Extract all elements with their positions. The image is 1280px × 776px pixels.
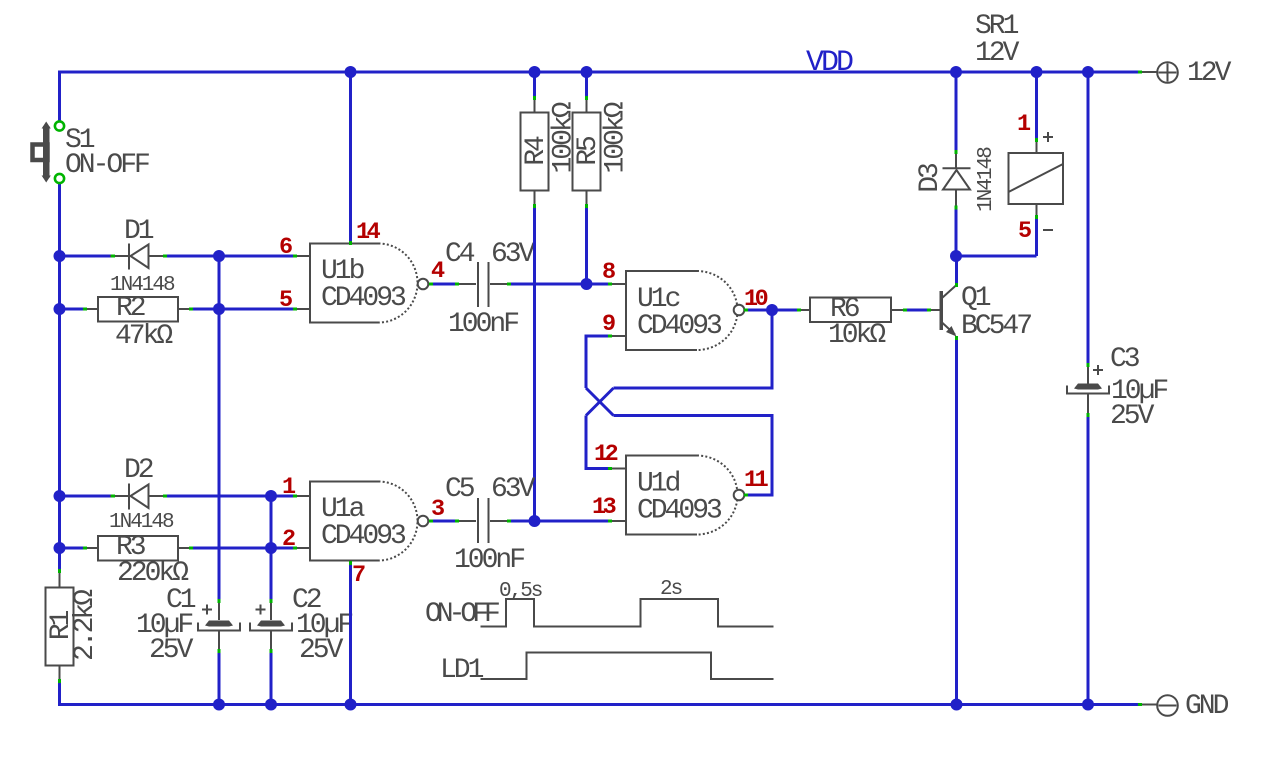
svg-text:ON-OFF: ON-OFF [65,150,149,181]
wire R2 row left [60,308,87,311]
svg-text:12V: 12V [975,38,1020,69]
resistor R3 [84,532,192,589]
svg-text:2s: 2s [660,578,682,601]
svg-text:R4: R4 [521,136,552,166]
svg-text:5: 5 [1018,218,1031,245]
wire right rail upper (VDD to C3) [1087,72,1090,366]
wire C1 column [218,256,221,601]
wire left rail lower (R1 to GND) [58,681,61,705]
wire C4 to U1c pin 8 [507,283,610,286]
junction R4 / pin13 [529,515,541,527]
svg-text:9: 9 [602,311,615,338]
terminal GND [1141,691,1229,722]
junction left rail D1 [54,250,66,262]
wire R6 to Q1 base [904,309,930,312]
svg-text:C5: C5 [445,474,475,505]
svg-text:25V: 25V [299,635,344,666]
wire D3 top [955,72,958,152]
junction left rail R3 [54,542,66,554]
wire D2 row left [60,495,113,498]
capacitor C3 (polarized) [1067,344,1167,432]
svg-text:25V: 25V [149,635,194,666]
wire R4 top to VDD [533,72,536,98]
relay SR1 [975,11,1063,256]
pin connection marks (green) [60,72,1143,705]
wire R5 top to VDD [585,72,588,98]
junction D3 VDD [950,66,962,78]
svg-text:220kΩ: 220kΩ [117,558,189,589]
svg-text:CD4093: CD4093 [637,496,722,527]
svg-text:13: 13 [592,494,616,521]
svg-text:25V: 25V [1110,401,1155,432]
junction C2 bottom rail [265,699,277,711]
svg-text:12V: 12V [1187,58,1232,89]
junction pin7 GND [345,699,357,711]
gate U1b CD4093 [279,219,445,323]
junction R4 VDD [529,66,541,78]
svg-text:0,5s: 0,5s [499,580,542,603]
capacitor C2 (polarized) [250,585,352,666]
timing diagram LD1 trace [440,653,774,687]
wire C5 to U1d pin 13 [507,520,610,523]
wire U1a pin 7 to GND [349,561,352,705]
svg-text:D2: D2 [124,455,153,486]
junction C1 bottom rail [213,699,225,711]
wire D1 row left [60,255,113,258]
svg-text:63V: 63V [491,239,536,270]
wire U1b out to C4 [429,283,459,286]
junction R5 VDD [581,66,593,78]
svg-text:VDD: VDD [806,46,853,80]
switch S1 [33,121,150,183]
wire R3 row left [60,547,87,550]
capacitor C1 (polarized) [136,585,240,666]
gate U1c CD4093 [602,259,768,350]
svg-text:14: 14 [356,219,381,246]
junction R2 out [213,303,225,315]
capacitor C4 [445,239,536,340]
wire crossing diagonal pin10 net [586,388,614,416]
svg-text:8: 8 [602,259,615,286]
wire left rail middle (S1 to R1) [58,184,61,573]
wire pin9 net horizontal to pin11 [614,416,773,496]
junction relay pin1 VDD [1031,66,1043,78]
junction pin10 node [766,304,778,316]
svg-text:12: 12 [594,441,618,468]
junction R3 out [265,542,277,554]
wire D2 row right to U1a pin 1 [165,495,296,498]
resistor R2 [84,293,192,352]
resistor R5 [573,96,632,208]
wire relay pin5 row [956,255,1037,258]
wire Q1 collector [955,256,958,284]
svg-text:7: 7 [352,562,365,589]
svg-text:11: 11 [744,467,769,494]
junction right rail GND [1082,699,1094,711]
svg-text:100nF: 100nF [454,545,524,576]
svg-text:1N4148: 1N4148 [975,147,998,212]
svg-text:CD4093: CD4093 [637,311,722,342]
wire U1c out to R6 [770,309,801,312]
wire Q1 emitter to GND [955,337,958,705]
junction left rail R2 [54,303,66,315]
wire C2 column [270,496,273,601]
svg-text:47kΩ: 47kΩ [115,321,173,352]
transistor Q1 BC547 [928,283,1031,342]
wire U1b pin 14 to VDD [349,72,352,243]
svg-text:2.2kΩ: 2.2kΩ [70,589,101,661]
svg-text:Q1: Q1 [961,283,991,314]
junction right rail VDD [1082,66,1094,78]
svg-text:100kΩ: 100kΩ [601,101,632,173]
svg-text:ON-OFF: ON-OFF [425,599,499,630]
diode D3 [915,147,998,212]
svg-text:CD4093: CD4093 [321,521,406,552]
junction D2 out [265,490,277,502]
capacitor C5 [445,474,536,576]
wire U1c out down [614,310,773,388]
wire U1a out to C5 [429,520,459,523]
junction left rail D2 [54,490,66,502]
wire left rail upper (S1 to VDD) [58,71,61,122]
svg-text:R5: R5 [573,136,604,166]
resistor R1 [46,570,102,683]
svg-text:3: 3 [431,496,444,523]
wire VDD top rail [58,71,1140,74]
wire R4 bottom to C5 node [533,206,536,521]
junction D3 / relay / collector node [950,250,962,262]
svg-text:1N4148: 1N4148 [109,511,174,534]
svg-text:4: 4 [431,258,445,285]
svg-text:1: 1 [1017,111,1031,138]
resistor R6 [799,294,906,351]
wire R3 row right to U1a pin 2 [190,547,296,550]
timing diagram ON-OFF trace [425,578,774,630]
wire R2 row right to U1b pin 5 [190,308,296,311]
svg-text:D1: D1 [124,216,154,247]
svg-text:GND: GND [1185,691,1229,722]
svg-text:10kΩ: 10kΩ [828,320,886,351]
diode D1 [110,216,175,297]
wire D3 bottom to node [955,207,958,256]
junction D1 out [213,250,225,262]
resistor R4 [521,96,580,208]
svg-text:LD1: LD1 [440,655,484,686]
svg-text:100nF: 100nF [448,309,518,340]
wire D1 row right to U1b pin 6 [165,255,296,258]
svg-text:BC547: BC547 [961,311,1031,342]
svg-text:R2: R2 [116,293,145,324]
svg-text:C3: C3 [1110,344,1140,375]
svg-text:C4: C4 [445,239,475,270]
gate U1d CD4093 [592,441,769,535]
wire right rail lower (C3 to GND) [1087,414,1090,705]
svg-text:63V: 63V [491,474,536,505]
wire C1 column lower [218,651,221,705]
wire C2 column lower [270,651,273,705]
svg-text:CD4093: CD4093 [321,283,406,314]
wire GND bottom rail [58,703,1140,706]
terminal 12V [1141,58,1232,89]
wire U1c pin9 feedback [586,336,610,388]
gate U1a CD4093 [282,474,444,589]
svg-text:D3: D3 [915,163,946,193]
junction pin14 VDD [345,66,357,78]
wire R5 bottom to pin8 node [585,206,588,284]
wire pin10 net to U1d pin12 [586,416,610,469]
junction R5 / pin8 [581,278,593,290]
junction Q1 emitter GND [951,699,963,711]
diode D2 [109,455,174,534]
wire crossing diagonal pin9 [586,388,614,416]
